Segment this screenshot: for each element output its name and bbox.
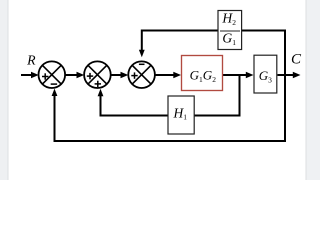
svg-text:R: R xyxy=(26,53,36,68)
svg-text:C: C xyxy=(291,52,302,68)
